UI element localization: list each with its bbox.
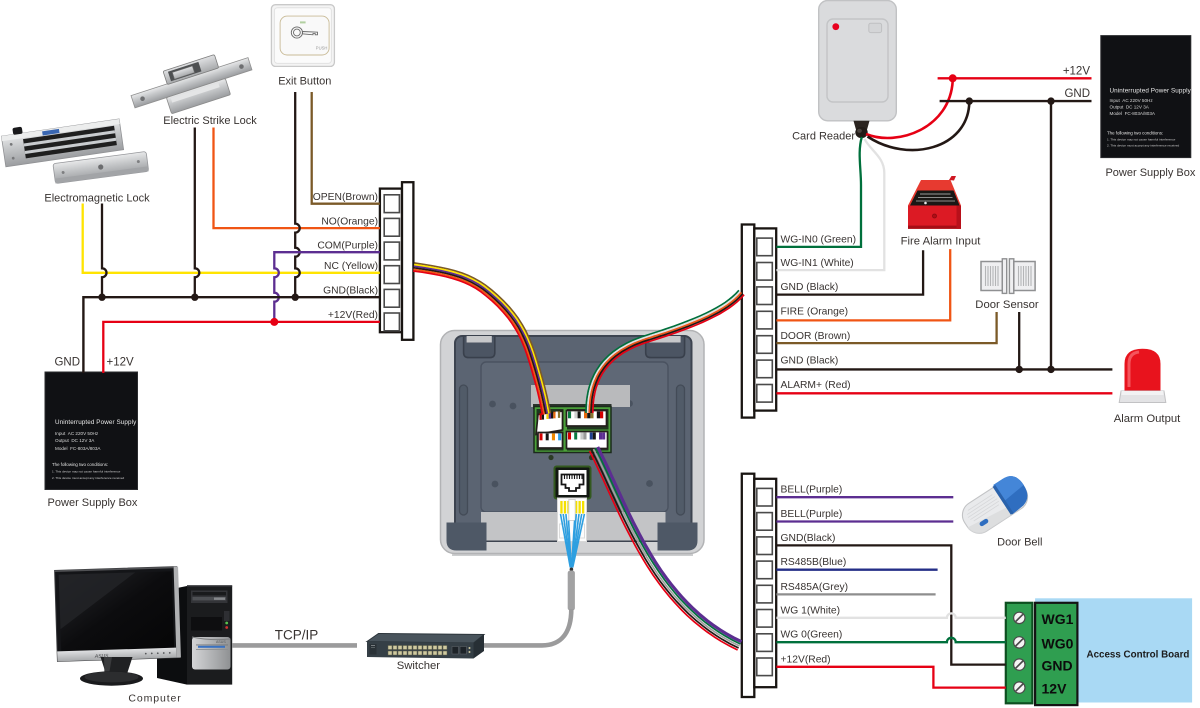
wire GND black to fire alarm	[776, 250, 923, 294]
wire TCP/IP	[232, 643, 357, 648]
svg-text:GND: GND	[54, 357, 80, 369]
wire WG-IN1 white from card reader	[776, 139, 884, 270]
wire GND black to board	[776, 545, 1005, 664]
svg-text:ASUS: ASUS	[216, 640, 226, 644]
svg-text:GND (Black): GND (Black)	[781, 355, 839, 366]
junction dot red	[270, 318, 278, 326]
wire NC yellow	[83, 204, 380, 273]
grey cable to switcher	[484, 609, 571, 645]
power supply box right	[1101, 36, 1192, 158]
junction dots left GND bus	[98, 294, 105, 301]
svg-text:Output DC 12V 3A: Output DC 12V 3A	[55, 438, 95, 443]
card reader	[819, 1, 897, 139]
wire OPEN brown from exit button	[312, 92, 380, 204]
svg-text:WG-IN0 (Green): WG-IN0 (Green)	[781, 235, 857, 246]
wire black from door sensor	[1018, 312, 1020, 369]
wire ALARM+ red	[776, 392, 1112, 394]
svg-text:+12V(Red): +12V(Red)	[328, 310, 378, 321]
wire BELL purple 2	[776, 520, 953, 522]
wire COM purple	[274, 252, 380, 322]
computer	[55, 567, 233, 686]
svg-text:GND (Black): GND (Black)	[781, 282, 839, 293]
wire BELL purple 1	[776, 496, 953, 498]
svg-text:WG0: WG0	[1042, 635, 1074, 651]
terminal block A (left, 6 slots)	[380, 182, 414, 340]
svg-text:Door Sensor: Door Sensor	[975, 299, 1039, 311]
wire black card reader to GND	[868, 103, 970, 151]
wire black from electromagnetic lock	[102, 204, 107, 298]
svg-text:GND: GND	[1042, 658, 1073, 674]
wire +12V red to board	[776, 667, 1005, 688]
svg-text:RS485A(Grey): RS485A(Grey)	[781, 582, 849, 593]
svg-text:Exit Button: Exit Button	[278, 76, 331, 88]
svg-text:The following two conditions:: The following two conditions:	[52, 462, 108, 467]
junction dots GND top	[966, 97, 973, 104]
svg-text:NO(Orange): NO(Orange)	[321, 216, 378, 227]
svg-text:WG 0(Green): WG 0(Green)	[781, 630, 843, 641]
rj45 plug with cable fan	[558, 498, 587, 542]
svg-text:GND(Black): GND(Black)	[781, 533, 836, 544]
svg-text:Switcher: Switcher	[397, 660, 441, 672]
wire black from electric strike lock	[195, 128, 200, 298]
svg-text:Computer: Computer	[128, 693, 181, 705]
central device	[441, 331, 705, 556]
svg-text:Uninterrupted Power Supply: Uninterrupted Power Supply	[55, 419, 137, 426]
svg-text:BELL(Purple): BELL(Purple)	[781, 509, 843, 520]
svg-text:1. This device may not cause h: 1. This device may not cause harmful int…	[1107, 138, 1176, 142]
power supply box left	[45, 372, 138, 490]
ribbon from block A to device	[413, 263, 550, 415]
svg-text:Output DC 12V 3A: Output DC 12V 3A	[1110, 105, 1150, 110]
svg-text:+12V: +12V	[1063, 66, 1091, 78]
switcher	[367, 634, 484, 659]
svg-text:Power Supply Box: Power Supply Box	[48, 497, 138, 509]
junction dots GND bus right	[1016, 366, 1023, 373]
wire +12V line top right	[938, 77, 1092, 79]
bundle from device to block B	[586, 290, 744, 413]
svg-text:TCP/IP: TCP/IP	[275, 628, 319, 643]
door sensor	[981, 259, 1035, 294]
bundle from device to block C	[590, 447, 742, 650]
svg-text:NC (Yellow): NC (Yellow)	[324, 261, 378, 272]
svg-text:Model FC-803A/803A: Model FC-803A/803A	[1110, 111, 1156, 116]
svg-text:Electromagnetic Lock: Electromagnetic Lock	[44, 193, 150, 205]
alarm output	[1119, 349, 1166, 403]
wire GND black bus left	[83, 297, 380, 373]
door bell	[956, 471, 1034, 539]
labels block B	[781, 235, 857, 392]
rj45 jack	[555, 467, 591, 499]
svg-text:Fire Alarm Input: Fire Alarm Input	[901, 236, 982, 248]
svg-text:BELL(Purple): BELL(Purple)	[781, 485, 843, 496]
electric strike lock	[127, 45, 257, 124]
svg-text:OPEN(Brown): OPEN(Brown)	[313, 192, 378, 203]
svg-text:Card Reader: Card Reader	[792, 131, 855, 143]
blue cable fan	[561, 514, 585, 568]
wire GND bus to alarm	[776, 368, 1112, 370]
wire GND line top right	[940, 100, 1092, 102]
wire WG1 white	[776, 613, 1005, 617]
wire black from exit button	[295, 92, 300, 297]
wire NO orange from strike lock	[214, 128, 380, 229]
svg-text:+12V(Red): +12V(Red)	[781, 654, 831, 665]
exit button	[271, 5, 334, 67]
svg-text:12V: 12V	[1042, 681, 1068, 697]
stand	[101, 657, 133, 677]
svg-text:Door Bell: Door Bell	[997, 537, 1042, 549]
wire RS485A grey	[776, 593, 935, 595]
svg-text:Access Control Board: Access Control Board	[1087, 650, 1190, 661]
svg-text:Input AC 220V 50Hz: Input AC 220V 50Hz	[55, 431, 99, 436]
wire DOOR brown	[776, 312, 996, 343]
svg-text:Input AC 220V 50Hz: Input AC 220V 50Hz	[1110, 98, 1154, 103]
tower	[157, 586, 232, 685]
svg-text:+12V: +12V	[107, 357, 135, 369]
connector TL	[536, 411, 563, 435]
svg-text:GND(Black): GND(Black)	[323, 286, 378, 297]
labels block A	[313, 192, 378, 321]
terminal block C (right bottom, 8 slots)	[742, 474, 776, 697]
svg-text:GND: GND	[1064, 88, 1090, 100]
wire +12V red left	[103, 322, 380, 373]
cable tip	[570, 568, 574, 572]
svg-text:COM(Purple): COM(Purple)	[317, 241, 378, 252]
labels block C	[781, 485, 849, 666]
wire red card reader to +12V	[866, 81, 953, 138]
svg-text:PUSH: PUSH	[316, 45, 328, 50]
svg-text:1. This device may not cause h: 1. This device may not cause harmful int…	[52, 470, 121, 474]
access control board	[1006, 598, 1192, 705]
grey sleeve	[568, 571, 575, 611]
wire long black vertical right	[1050, 101, 1052, 369]
svg-text:ALARM+ (Red): ALARM+ (Red)	[781, 380, 851, 391]
wire WG0 green	[776, 638, 1005, 642]
junction dot +12V	[949, 74, 957, 82]
svg-text:2. This device must accept any: 2. This device must accept any interfere…	[52, 476, 124, 480]
svg-text:WG 1(White): WG 1(White)	[781, 605, 841, 616]
svg-text:RS485B(Blue): RS485B(Blue)	[781, 557, 847, 568]
connector BR	[567, 432, 608, 449]
wire FIRE orange	[776, 249, 950, 320]
svg-text:Electric Strike Lock: Electric Strike Lock	[163, 115, 257, 127]
svg-text:WG-IN1 (White): WG-IN1 (White)	[781, 258, 854, 269]
svg-text:2. This device must accept any: 2. This device must accept any interfere…	[1107, 144, 1179, 148]
electromagnetic lock	[0, 113, 148, 184]
wire RS485B blue	[776, 569, 937, 571]
terminal block B (right middle, 7 slots)	[742, 225, 776, 418]
connector BL	[538, 433, 563, 449]
svg-text:WG1: WG1	[1042, 611, 1074, 627]
connector TR	[567, 411, 607, 427]
wire WG-IN0 green from card reader	[776, 137, 861, 247]
svg-text:DOOR (Brown): DOOR (Brown)	[781, 331, 851, 342]
svg-text:Uninterrupted Power Supply: Uninterrupted Power Supply	[1110, 88, 1192, 95]
monitor	[55, 567, 181, 662]
svg-text:Alarm Output: Alarm Output	[1114, 413, 1181, 425]
svg-text:Model FC-803A/803A: Model FC-803A/803A	[55, 446, 101, 451]
svg-text:FIRE (Orange): FIRE (Orange)	[781, 307, 849, 318]
svg-text:The following two conditions:: The following two conditions:	[1107, 131, 1163, 136]
svg-text:Power Supply Box: Power Supply Box	[1105, 167, 1195, 179]
fire alarm input	[908, 176, 961, 229]
